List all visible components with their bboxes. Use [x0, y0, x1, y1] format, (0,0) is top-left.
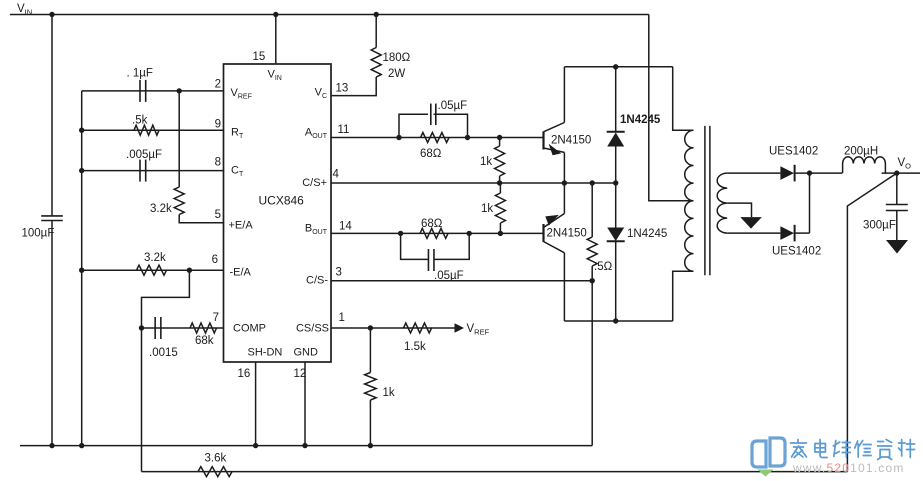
svg-text:7: 7 [213, 312, 219, 324]
junction C/S+ / Q1 emitter [562, 180, 567, 185]
junction left bus / RT line [79, 128, 84, 133]
junction AOUT / cap bypass right [465, 135, 470, 140]
junction top rail / 180ohm [374, 12, 379, 17]
svg-text:3.2k: 3.2k [144, 252, 166, 264]
wire feedback vertical down to 3.6k line [141, 328, 143, 472]
svg-text:. 1µF: . 1µF [127, 68, 153, 80]
junction top rail / 100uF [49, 12, 54, 17]
svg-text:C/S-: C/S- [306, 275, 328, 287]
junction pin16 / ground bus [253, 443, 258, 448]
transistor Q1 2N4150 [542, 132, 544, 150]
svg-text:4: 4 [333, 169, 340, 181]
svg-text:9: 9 [215, 119, 221, 131]
wire pin1 CS/SS line [331, 327, 455, 329]
svg-text:1k: 1k [481, 203, 493, 215]
junction left bus / ground bus [79, 443, 84, 448]
svg-text:2W: 2W [388, 68, 405, 80]
svg-text:+E/A: +E/A [229, 220, 254, 232]
resistor 3.2k horizontal [137, 265, 167, 275]
svg-text:www.520101.com: www.520101.com [792, 461, 905, 475]
svg-text:68Ω: 68Ω [421, 218, 443, 230]
wire 3.6k feedback line [142, 471, 848, 473]
junction AOUT / cap bypass left [396, 135, 401, 140]
wire -E/A to COMP network [142, 270, 190, 328]
svg-text:6: 6 [212, 254, 218, 266]
resistor 68 ohm (top) [421, 133, 450, 143]
svg-text:C/S+: C/S+ [302, 177, 327, 189]
wire bottom collector rail [564, 320, 672, 322]
capacitor .05uF (bottom) with bypass wires [401, 233, 428, 259]
svg-text:8: 8 [215, 157, 221, 169]
pin 12 GND [304, 362, 306, 446]
svg-text:.05µF: .05µF [438, 100, 468, 112]
junction C/S- / .5ohm bottom [590, 278, 595, 283]
svg-text:1k: 1k [383, 387, 395, 399]
svg-text:14: 14 [339, 221, 352, 233]
svg-text:1: 1 [339, 312, 345, 324]
resistor 1k (upper base pulldown) [499, 138, 501, 147]
wire top collector rail [564, 66, 672, 68]
svg-text:1k: 1k [480, 156, 492, 168]
svg-text:68k: 68k [195, 335, 214, 347]
capacitor C 100uF [51, 15, 53, 216]
svg-text:2N4150: 2N4150 [551, 135, 591, 147]
transformer T1 secondary winding [717, 173, 727, 233]
wire pin9 RT line [82, 129, 224, 131]
wire ground bus [20, 445, 592, 447]
svg-text:.5Ω: .5Ω [594, 261, 613, 273]
inductor L1 200uH [843, 157, 886, 173]
junction BOUT / cap bypass right [467, 231, 472, 236]
resistor 3.2k vertical with wire to +E/A [178, 91, 180, 187]
svg-text:3.2k: 3.2k [150, 203, 172, 215]
capacitor .1uF [139, 80, 141, 102]
resistor 3.6k [198, 467, 232, 477]
resistor .5 ohm current sense [591, 183, 593, 237]
watermark chinese text [791, 440, 915, 460]
svg-text:100µF: 100µF [22, 228, 55, 240]
wire pin4 C/S+ line [331, 182, 616, 184]
wire pin6 -E/A line [82, 269, 224, 271]
wire C/S- node down to ground bus [591, 281, 593, 446]
watermark book icon [752, 438, 785, 467]
diode D1 1N4245 [615, 67, 617, 132]
wire pin14 BOUT line [331, 232, 544, 234]
svg-text:300µF: 300µF [863, 220, 896, 232]
wire pin2 VREF line with .1uF [82, 90, 224, 92]
junction left bus / -E/A line [79, 268, 84, 273]
arrow to VREF [455, 323, 465, 332]
capacitor .005uF [139, 160, 141, 182]
junction collector rail / D1 [613, 64, 618, 69]
svg-text:.0015: .0015 [149, 347, 178, 359]
svg-text:16: 16 [238, 368, 251, 380]
capacitor C 300uF output [896, 173, 898, 204]
svg-text:3: 3 [336, 267, 342, 279]
pin 16 SH-DN [255, 362, 257, 446]
junction BOUT / 1k lower [498, 231, 503, 236]
junction C/S+ / diode D2 [613, 180, 618, 185]
svg-text:CS/SS: CS/SS [296, 323, 329, 335]
junction rectifier outputs [807, 170, 812, 175]
svg-text:12: 12 [294, 368, 307, 380]
capacitor .0015 [154, 317, 156, 339]
junction -E/A line / feedback tap [187, 268, 192, 273]
svg-text:UES1402: UES1402 [769, 146, 818, 158]
resistor 1k (lower base pulldown) [499, 183, 501, 193]
svg-text:SH-DN: SH-DN [248, 347, 283, 359]
ground secondary return arrow [740, 217, 762, 229]
resistor 180ohm 2W [371, 48, 381, 78]
wire inductor to VO [882, 172, 920, 174]
junction bottom rail / D2 [613, 318, 618, 323]
transistor Q2 2N4150 [542, 224, 544, 242]
svg-text:68Ω: 68Ω [420, 148, 442, 160]
svg-text:180Ω: 180Ω [383, 52, 411, 64]
junction C/S+ / 1k upper [497, 180, 502, 185]
wire pin7 COMP line [142, 327, 224, 329]
resistor .5k [134, 125, 159, 135]
wire secondary bottom to rectifier [727, 232, 780, 234]
svg-text:13: 13 [336, 83, 349, 95]
svg-text:11: 11 [338, 124, 350, 136]
junction CS/SS / 1k to ground [368, 325, 373, 330]
resistor 1k (soft start to ground) [369, 328, 371, 373]
pin 15 VIN [275, 15, 277, 65]
svg-text:.5k: .5k [132, 115, 148, 127]
svg-text:15: 15 [253, 51, 266, 63]
wire collector rail to primary top [673, 67, 694, 131]
wire VO feedback diagonal and vertical [847, 173, 896, 472]
capacitor .05uF (top) with bypass wires [399, 114, 428, 137]
junction VO node [894, 170, 899, 175]
svg-text:1N4245: 1N4245 [627, 228, 667, 240]
resistor 1.5k [404, 323, 432, 333]
svg-text:UCX846: UCX846 [259, 194, 305, 208]
wire pin3 C/S- line [331, 280, 592, 282]
svg-text:2N4150: 2N4150 [547, 228, 587, 240]
diode D2 1N4245 [615, 183, 617, 228]
wire top VIN rail [10, 14, 649, 16]
junction pin2 line / divider vertical [177, 88, 182, 93]
op-amp U1 UCX846 PWM controller box [224, 64, 332, 362]
wire left bus vertical [81, 91, 83, 446]
resistor 68k [190, 323, 217, 333]
wire rectifier junction vertical [809, 173, 811, 233]
wire secondary top to rectifier [727, 172, 780, 174]
transformer T1 primary winding [685, 130, 694, 271]
wire pin11 AOUT line [331, 137, 544, 139]
junction left bus / CT line [79, 168, 84, 173]
diode D4 UES1402 (bottom) [780, 226, 794, 240]
junction AOUT / 1k [497, 135, 502, 140]
svg-text:1.5k: 1.5k [404, 341, 426, 353]
resistor 68 ohm (bottom) [420, 228, 448, 238]
ground output arrow [886, 240, 908, 254]
wire pin8 CT line [82, 170, 224, 172]
svg-text:COMP: COMP [233, 323, 266, 335]
junction 100uF / ground bus [49, 443, 54, 448]
svg-text:UES1402: UES1402 [772, 246, 821, 258]
junction C/S+ / .5ohm [590, 180, 595, 185]
svg-text:200µH: 200µH [844, 146, 878, 158]
diode D3 UES1402 (top) [780, 166, 794, 180]
svg-text:-E/A: -E/A [230, 267, 252, 279]
svg-text:5: 5 [215, 209, 221, 221]
wire center-tap feed (VIN rail down to transformer center tap) [649, 15, 694, 201]
wire secondary center tap to return arrow [727, 203, 751, 217]
svg-text:GND: GND [294, 347, 319, 359]
svg-text:.005µF: .005µF [126, 149, 162, 161]
junction BOUT / cap bypass left [398, 231, 403, 236]
junction pin12 / ground bus [302, 443, 307, 448]
svg-text:1N4245: 1N4245 [620, 114, 661, 126]
svg-text:2: 2 [215, 79, 221, 91]
wire pin13 VC to 180 ohm [331, 77, 376, 96]
svg-text:3.6k: 3.6k [205, 453, 227, 465]
wire bottom rail to primary bottom [673, 271, 694, 321]
junction softstart 1k / ground bus [368, 443, 373, 448]
junction COMP network node [139, 325, 144, 330]
transformer core [704, 126, 706, 275]
